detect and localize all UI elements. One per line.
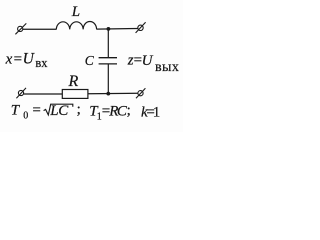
resistor R	[62, 90, 88, 99]
svg-text:=: =	[14, 52, 22, 68]
output terminal bottom-right	[136, 88, 145, 98]
svg-text:C: C	[85, 53, 95, 68]
svg-text:вх: вх	[35, 56, 48, 70]
svg-text:;: ;	[127, 103, 131, 119]
formula T1 = RC; k=1	[89, 103, 160, 123]
wire top-right rail	[97, 28, 138, 31]
wire bottom-left rail	[24, 93, 63, 95]
svg-text:R: R	[68, 73, 79, 90]
svg-text:;: ;	[77, 102, 81, 118]
node junction bottom	[106, 92, 110, 96]
wire capacitor top lead	[107, 29, 109, 58]
svg-text:1: 1	[153, 104, 161, 120]
wire bottom-right rail	[88, 92, 138, 95]
svg-text:U: U	[23, 51, 36, 68]
svg-text:U: U	[142, 53, 154, 69]
svg-text:T: T	[11, 103, 21, 119]
input terminal bottom-left	[16, 88, 26, 98]
svg-text:x: x	[5, 52, 13, 68]
capacitor C	[99, 58, 117, 64]
svg-text:0: 0	[23, 111, 28, 122]
wire top-left rail	[23, 28, 57, 30]
svg-text:=: =	[32, 103, 40, 119]
input terminal top-left	[15, 23, 26, 34]
radical sign of sqrt(LC)	[44, 104, 73, 115]
svg-text:вых: вых	[155, 60, 179, 75]
svg-text:C: C	[58, 103, 69, 119]
node junction top	[107, 27, 111, 31]
output terminal top-right	[136, 22, 146, 33]
svg-text:L: L	[71, 4, 80, 20]
inductor L	[56, 22, 96, 30]
label z = U vyx (output voltage)	[127, 53, 179, 76]
label x = U vx (input voltage)	[5, 51, 49, 71]
formula T0 = sqrt(LC);	[11, 102, 81, 122]
wire capacitor bottom lead	[107, 64, 109, 94]
